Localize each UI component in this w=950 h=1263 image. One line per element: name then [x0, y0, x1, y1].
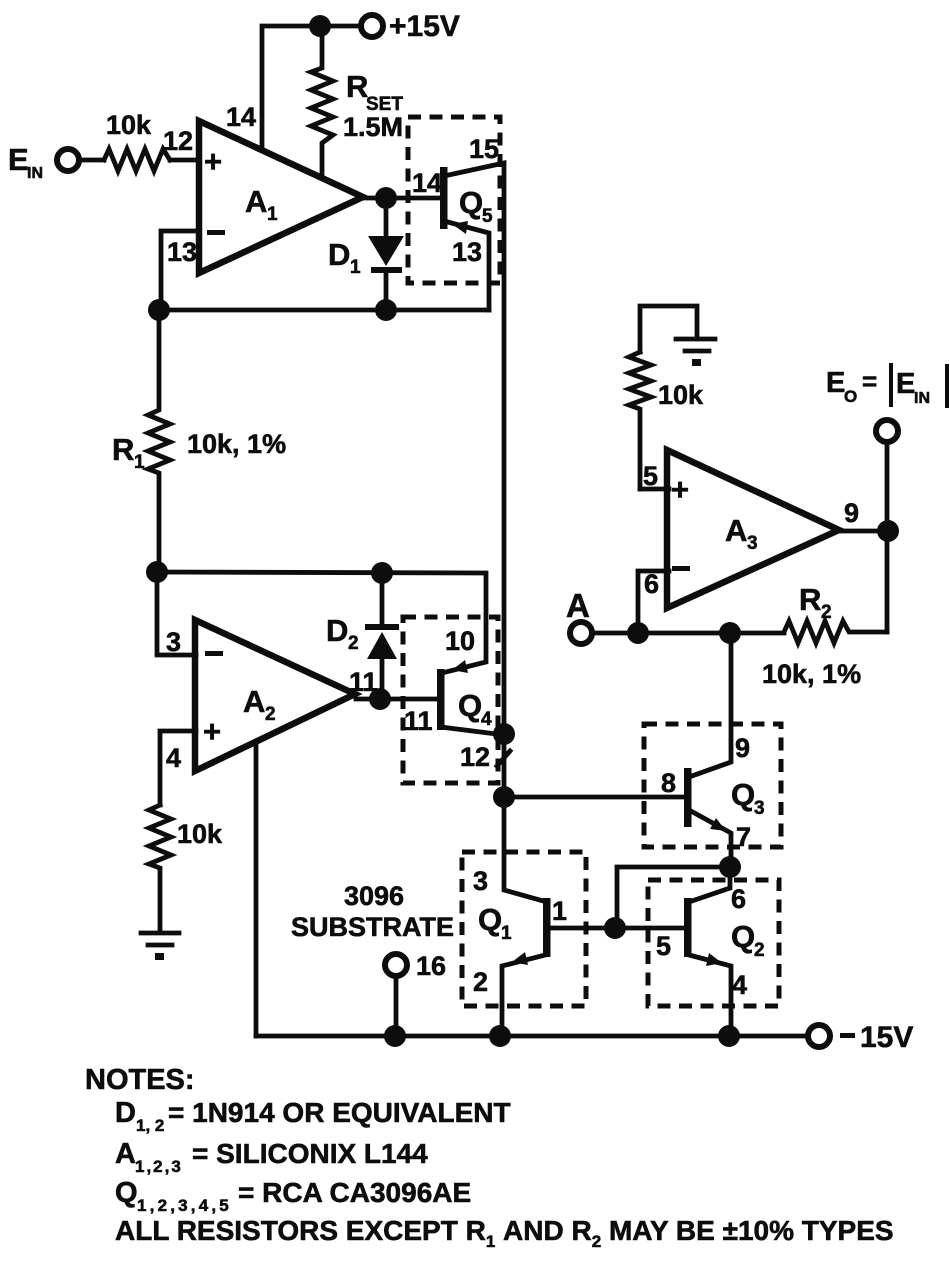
svg-text:D: D — [326, 613, 348, 648]
svg-text:1: 1 — [350, 257, 361, 278]
terminal E_IN — [57, 149, 79, 171]
label 3096 SUBSTRATE — [291, 881, 454, 942]
transistor Q2 label — [731, 919, 765, 961]
wire node R1-bottom to Q4 emitter — [157, 572, 486, 672]
junction dot Q2 emitter rail — [718, 1025, 740, 1047]
svg-text:10: 10 — [445, 626, 475, 656]
wire Q3 collector — [689, 633, 731, 777]
svg-text:2: 2 — [821, 602, 832, 623]
svg-text:R: R — [112, 432, 134, 467]
wire Q2 collector — [689, 868, 730, 902]
svg-text:E: E — [896, 368, 915, 400]
svg-text:Q: Q — [731, 777, 755, 812]
svg-text:12: 12 — [460, 742, 490, 772]
note Q1,2,3,4,5 — [115, 1177, 471, 1215]
svg-text:SUBSTRATE: SUBSTRATE — [291, 912, 454, 942]
svg-text:1, 2: 1, 2 — [136, 1116, 164, 1135]
svg-text:+: + — [204, 144, 222, 179]
wire Q5 collector down to Q4 and Q1 — [444, 163, 547, 902]
diode D1 — [368, 198, 404, 310]
resistor R1 — [148, 310, 170, 572]
junction dot Q3 emitter node — [719, 856, 741, 878]
svg-text:A: A — [245, 184, 267, 219]
svg-text:IN: IN — [27, 165, 43, 182]
transistor Q2 emitter arrow — [706, 953, 722, 966]
wire A3 pin 6 — [638, 571, 669, 633]
svg-text:1,2,3,4,5: 1,2,3,4,5 — [137, 1196, 232, 1215]
transistor Q5 dashed box — [408, 117, 500, 283]
wire substrate to rail — [394, 976, 399, 1036]
op-amp A2 label — [243, 684, 276, 725]
diode D2 — [365, 573, 399, 699]
svg-text:14: 14 — [226, 102, 256, 132]
diode D1 label — [328, 237, 361, 278]
junction dot Q3 base node — [493, 786, 515, 808]
tick mark on vertical wire — [497, 751, 510, 766]
transistor Q3 base bar — [684, 768, 692, 827]
minus input A2 — [205, 651, 223, 656]
svg-text:Q: Q — [459, 185, 483, 220]
svg-text:6: 6 — [644, 569, 659, 599]
svg-text:8: 8 — [661, 768, 676, 798]
junction dot substrate rail — [384, 1025, 406, 1047]
transistor Q5 base bar — [440, 167, 448, 229]
transistor Q4 base bar — [437, 669, 445, 730]
svg-text:Q: Q — [115, 1177, 138, 1209]
svg-text:11: 11 — [404, 706, 433, 736]
op-amp A1 — [199, 121, 363, 273]
wire Q3 emitter — [689, 810, 731, 868]
svg-text:10k: 10k — [106, 110, 152, 140]
transistor Q3 label — [731, 777, 765, 819]
svg-text:7: 7 — [736, 822, 751, 852]
ground (A3 input) — [676, 339, 715, 366]
svg-text:Q: Q — [731, 919, 755, 954]
svg-text:=: = — [862, 366, 877, 396]
wire -15V rail — [256, 1034, 808, 1039]
transistor Q4 dashed box — [403, 617, 498, 783]
junction dot pin6 branch — [627, 622, 649, 644]
svg-text:5: 5 — [656, 931, 671, 961]
minus input A3 — [672, 566, 690, 571]
svg-text:Q: Q — [478, 902, 502, 937]
wire Q1 emitter — [502, 955, 545, 1036]
note A1,2,3 — [115, 1138, 428, 1176]
svg-text:4: 4 — [166, 743, 181, 773]
svg-text:NOTES:: NOTES: — [85, 1064, 195, 1096]
svg-text:2: 2 — [473, 967, 488, 997]
svg-text:3: 3 — [747, 533, 758, 554]
resistor R_SET label — [346, 69, 403, 115]
junction dot pin13/R1 — [148, 299, 170, 321]
svg-text:16: 16 — [416, 951, 446, 981]
resistor 10k (A3 plus input) — [629, 352, 651, 489]
junction dot R1 bottom — [146, 561, 168, 583]
junction dot Q1 Q2 base node — [604, 917, 626, 939]
junction dot +15V node — [309, 15, 331, 37]
junction dot D1 cathode — [375, 299, 397, 321]
svg-text:9: 9 — [735, 733, 750, 763]
svg-text:13: 13 — [452, 237, 482, 267]
svg-text:1: 1 — [267, 204, 278, 225]
svg-text:= 1N914 OR EQUIVALENT: = 1N914 OR EQUIVALENT — [168, 1097, 511, 1128]
label E_O = |E_IN| — [826, 363, 949, 408]
minus input A1 — [207, 230, 225, 235]
wire Q5 emitter — [444, 221, 489, 310]
svg-text:1.5M: 1.5M — [343, 112, 403, 142]
transistor Q5 emitter arrow — [452, 221, 468, 234]
transistor Q1 base bar — [543, 898, 551, 957]
svg-text:A: A — [566, 587, 590, 624]
transistor Q1 dashed box — [462, 852, 586, 1006]
wire Q2 base — [615, 926, 684, 931]
resistor 10k input — [104, 149, 170, 171]
svg-text:9: 9 — [844, 498, 859, 528]
transistor Q4 emitter arrow — [452, 660, 468, 673]
wire Q2 emitter — [689, 955, 731, 1036]
svg-text:2: 2 — [754, 940, 765, 961]
svg-text:A: A — [725, 513, 747, 548]
op-amp A1 label — [245, 184, 278, 225]
svg-text:2: 2 — [265, 704, 276, 725]
transistor Q1 label — [478, 902, 512, 944]
svg-text:3096: 3096 — [344, 881, 404, 911]
transistor Q3 emitter arrow — [710, 818, 726, 831]
svg-text:4: 4 — [481, 709, 492, 730]
svg-text:IN: IN — [914, 390, 930, 407]
svg-text:5: 5 — [482, 206, 493, 227]
svg-text:Q: Q — [458, 688, 482, 723]
wire feedback bottom — [159, 308, 489, 313]
svg-text:10k: 10k — [177, 819, 223, 849]
svg-text:12: 12 — [163, 126, 193, 156]
svg-text:3: 3 — [473, 866, 488, 896]
ground (A2 input) — [141, 933, 179, 960]
junction dot D2 cathode node — [371, 562, 393, 584]
note D1,2 — [115, 1097, 511, 1135]
svg-text:+15V: +15V — [389, 10, 460, 43]
wire A2 supply to -15V rail — [254, 742, 259, 1036]
svg-text:A: A — [243, 684, 265, 719]
svg-text:6: 6 — [731, 884, 746, 914]
svg-text:3: 3 — [166, 627, 181, 657]
wire node A line — [592, 631, 784, 636]
svg-text:3: 3 — [754, 798, 765, 819]
junction dot Q3 branch — [719, 622, 741, 644]
wire Q3 base — [504, 795, 684, 800]
wire E_IN to resistor — [80, 158, 104, 163]
terminal E_O — [876, 420, 898, 442]
junction dot Q1 emitter rail — [489, 1025, 511, 1047]
svg-text:1,2,3: 1,2,3 — [135, 1157, 183, 1176]
svg-text:D: D — [115, 1097, 136, 1129]
junction dot A1 output — [375, 187, 397, 209]
wire pin 13 feedback — [161, 231, 197, 310]
svg-text:R: R — [799, 582, 821, 617]
svg-text:5: 5 — [643, 461, 658, 491]
resistor R1 label — [112, 432, 145, 473]
resistor R2 — [784, 621, 887, 643]
svg-text:D: D — [328, 237, 350, 272]
transistor Q1 emitter arrow — [512, 952, 528, 965]
svg-text:10k: 10k — [658, 380, 704, 410]
svg-text:15: 15 — [469, 134, 499, 164]
svg-text:1: 1 — [134, 452, 145, 473]
junction dot Q4 collector — [493, 723, 515, 745]
wire A3 top to ground — [640, 306, 697, 352]
resistor R_SET — [311, 26, 333, 178]
wire A2 output to Q4 base — [356, 697, 437, 702]
terminal pin 16 substrate — [385, 954, 407, 976]
svg-text:+: + — [671, 472, 689, 507]
wire A3 output — [836, 529, 888, 534]
svg-text:= RCA CA3096AE: = RCA CA3096AE — [238, 1177, 471, 1208]
svg-text:A: A — [115, 1138, 136, 1170]
svg-text:E: E — [8, 142, 29, 177]
wire Q4 collector — [441, 727, 504, 735]
svg-text:15V: 15V — [860, 1021, 913, 1054]
svg-text:10k, 1%: 10k, 1% — [762, 659, 861, 689]
label -15V — [840, 1033, 855, 1038]
svg-text:O: O — [844, 387, 857, 406]
wire E_O down to R2 — [885, 442, 890, 632]
op-amp A2 — [195, 620, 355, 771]
op-amp A3 — [667, 450, 839, 608]
transistor Q5 label — [459, 185, 493, 227]
wire A3 pin 5 — [640, 487, 669, 492]
terminal A — [570, 622, 592, 644]
svg-text:1: 1 — [552, 896, 567, 926]
terminal -15V — [808, 1025, 830, 1047]
wire to +15V terminal — [320, 24, 361, 29]
wire A2 pin 3 — [157, 572, 196, 655]
svg-text:13: 13 — [167, 237, 197, 267]
wire Q3 emitter to base node — [617, 867, 730, 928]
resistor 10k (A2 plus input) — [149, 805, 171, 931]
svg-text:14: 14 — [412, 168, 442, 198]
transistor Q3 dashed box — [644, 724, 781, 847]
svg-text:+: + — [203, 714, 221, 749]
transistor Q2 dashed box — [648, 880, 779, 1006]
op-amp A3 label — [725, 513, 758, 554]
wire A2 pin 4 to 10k — [160, 731, 196, 805]
svg-text:= SILICONIX L144: = SILICONIX L144 — [192, 1138, 428, 1169]
transistor Q2 base bar — [684, 898, 692, 957]
terminal +15V — [361, 15, 383, 37]
transistor Q4 label — [458, 688, 492, 730]
svg-text:4: 4 — [732, 970, 747, 1000]
junction dot A3 output — [877, 520, 899, 542]
wire A1 output — [359, 196, 440, 201]
svg-text:E: E — [826, 367, 845, 399]
svg-text:ALL RESISTORS EXCEPT R1 AND R2: ALL RESISTORS EXCEPT R1 AND R2 MAY BE ±1… — [115, 1215, 894, 1251]
wire resistor to A1 pin 12 — [170, 158, 197, 163]
svg-text:1: 1 — [501, 923, 512, 944]
wire pin 14 to +15V — [262, 26, 320, 150]
diode D2 label — [326, 613, 359, 654]
resistor R2 label — [799, 582, 832, 623]
svg-text:2: 2 — [348, 633, 359, 654]
svg-text:10k, 1%: 10k, 1% — [187, 429, 286, 459]
note resistors — [115, 1215, 894, 1251]
junction dot A2 output — [369, 688, 391, 710]
wire Q1 base — [550, 926, 615, 931]
node E_IN label — [8, 142, 43, 182]
